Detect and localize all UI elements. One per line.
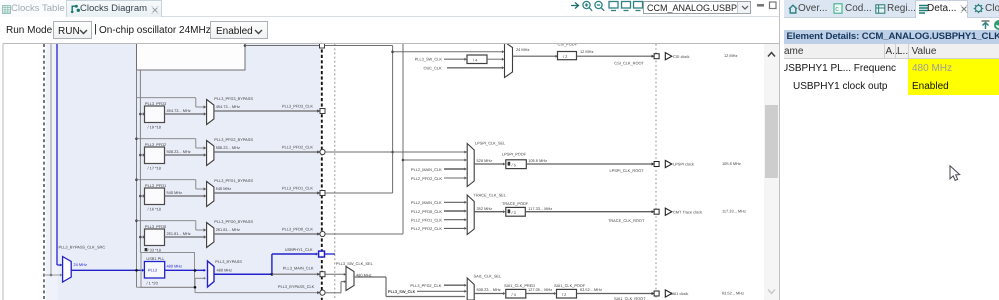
svg-text:OSC_CLK: OSC_CLK [424, 66, 443, 71]
svg-text:PLL3_PFD2_BYPASS: PLL3_PFD2_BYPASS [214, 137, 253, 142]
svg-text:63.52... MHz: 63.52... MHz [722, 291, 744, 296]
svg-text:CMT Trace clock: CMT Trace clock [673, 209, 702, 214]
svg-text:PLL2_PFD2_CLK: PLL2_PFD2_CLK [411, 226, 442, 231]
svg-text:508.23... MHz: 508.23... MHz [216, 145, 240, 150]
svg-text:TRACE_CLK_SEL: TRACE_CLK_SEL [474, 192, 507, 197]
svg-text:/ 5: / 5 [512, 162, 516, 167]
svg-text:PLL3_SW_CLK: PLL3_SW_CLK [388, 289, 416, 294]
svg-text:PLL2_PFD1_CLK: PLL2_PFD1_CLK [411, 218, 442, 223]
svg-text:USBPHY1_CLK: USBPHY1_CLK [285, 247, 313, 252]
svg-text:/ 17 *18: / 17 *18 [148, 166, 161, 171]
svg-text:PLL3_PFD3_BYPASS: PLL3_PFD3_BYPASS [214, 96, 253, 101]
svg-text:CSI_CLK_ROOT: CSI_CLK_ROOT [614, 60, 644, 65]
svg-text:LPSPI clock: LPSPI clock [673, 162, 694, 167]
svg-text:PLL3_PFD3: PLL3_PFD3 [145, 101, 166, 106]
svg-text:PLL3_PFD1_CLK: PLL3_PFD1_CLK [282, 186, 313, 191]
svg-text:12 MHz: 12 MHz [724, 53, 737, 58]
svg-text:480 MHz: 480 MHz [167, 263, 183, 268]
svg-text:PLL3_PFD2_CLK: PLL3_PFD2_CLK [410, 283, 441, 288]
svg-text:SAI1_CLK_ROOT: SAI1_CLK_ROOT [614, 296, 646, 300]
svg-text:TRACE_CLK_ROOT: TRACE_CLK_ROOT [608, 218, 645, 223]
svg-text:528 MHz: 528 MHz [477, 158, 493, 163]
svg-text:352 MHz: 352 MHz [477, 206, 493, 211]
svg-text:CSI clock: CSI clock [673, 54, 689, 59]
svg-text:PLL3_PFD2_CLK: PLL3_PFD2_CLK [282, 145, 313, 150]
svg-text:PLL2_MAIN_CLK: PLL2_MAIN_CLK [411, 200, 442, 205]
svg-text:117.33... MHz: 117.33... MHz [528, 206, 552, 211]
svg-text:PLL3_PFD0: PLL3_PFD0 [145, 224, 167, 229]
svg-text:261.81... MHz: 261.81... MHz [216, 227, 240, 232]
svg-text:261.81... MHz: 261.81... MHz [167, 231, 191, 236]
svg-text:105.6 MHz: 105.6 MHz [528, 158, 547, 163]
svg-text:12 MHz: 12 MHz [580, 49, 593, 54]
svg-text:TRACE_PODF: TRACE_PODF [502, 201, 529, 206]
svg-text:540 MHz: 540 MHz [216, 186, 232, 191]
svg-text:PLL3_PFD1: PLL3_PFD1 [145, 183, 166, 188]
svg-text:/ 33 *18: / 33 *18 [148, 248, 161, 253]
svg-text:LPSPI_PODF: LPSPI_PODF [502, 151, 527, 156]
svg-text:PLL3_PFD2: PLL3_PFD2 [145, 142, 166, 147]
svg-text:24 MHz: 24 MHz [516, 47, 529, 52]
svg-text:454.73... MHz: 454.73... MHz [167, 108, 191, 113]
svg-text:c: c [835, 6, 839, 13]
svg-text:LPSPI_CLK_SEL: LPSPI_CLK_SEL [475, 140, 506, 145]
svg-text:24 MHz: 24 MHz [74, 262, 87, 267]
svg-text:PLL3_MAIN_CLK: PLL3_MAIN_CLK [283, 265, 314, 270]
svg-text:508.23... MHz: 508.23... MHz [167, 149, 191, 154]
svg-text:117.33... MHz: 117.33... MHz [722, 209, 746, 214]
svg-text:SAI1 clock: SAI1 clock [670, 291, 688, 296]
svg-text:PLL3: PLL3 [148, 268, 157, 273]
svg-text:PLL3_PFD1_BYPASS: PLL3_PFD1_BYPASS [214, 178, 253, 183]
svg-text:PLL3_PFD0_CLK: PLL3_PFD0_CLK [282, 227, 313, 232]
svg-text:/ 16 *18: / 16 *18 [148, 207, 161, 212]
svg-text:USB1 PLL: USB1 PLL [146, 256, 165, 261]
svg-text:508.23... MHz: 508.23... MHz [477, 287, 501, 292]
svg-text:/ 2: / 2 [562, 292, 566, 297]
svg-text:540 MHz: 540 MHz [167, 190, 183, 195]
svg-text:/ 3: / 3 [512, 210, 516, 215]
svg-text:63.52... MHz: 63.52... MHz [580, 287, 602, 292]
svg-text:PLL2_PFD0_CLK: PLL2_PFD0_CLK [411, 209, 442, 214]
svg-text:SAI1_CLK_SEL: SAI1_CLK_SEL [474, 274, 503, 279]
svg-text:PLL3_BYPASS_CLK: PLL3_BYPASS_CLK [278, 284, 315, 289]
svg-text:PLL3_BYPASS_CLK_SRC: PLL3_BYPASS_CLK_SRC [59, 244, 106, 249]
svg-text:127.05... MHz: 127.05... MHz [528, 287, 552, 292]
svg-text:105.6 MHz: 105.6 MHz [722, 161, 741, 166]
svg-text:480 MHz: 480 MHz [217, 267, 233, 272]
svg-text:/ 1 *20: / 1 *20 [147, 281, 159, 286]
svg-text:/ 19 *18: / 19 *18 [148, 125, 161, 130]
svg-text:/ 2: / 2 [563, 54, 567, 59]
svg-text:PLL2_PFD2_CLK: PLL2_PFD2_CLK [411, 176, 442, 181]
svg-text:PLL3_PFD3_CLK: PLL3_PFD3_CLK [282, 104, 313, 109]
svg-text:454.73... MHz: 454.73... MHz [216, 104, 240, 109]
svg-text:PLL3_SW_CLK: PLL3_SW_CLK [415, 57, 443, 62]
svg-text:PLL2_MAIN_CLK: PLL2_MAIN_CLK [411, 167, 442, 172]
svg-text:PLL3_BYPASS: PLL3_BYPASS [215, 259, 242, 264]
svg-text:PLL3_SW_CLK_SEL: PLL3_SW_CLK_SEL [336, 261, 374, 266]
svg-text:PLL3_PFD0_BYPASS: PLL3_PFD0_BYPASS [214, 219, 253, 224]
svg-text:LPSPI_CLK_ROOT: LPSPI_CLK_ROOT [610, 168, 645, 173]
